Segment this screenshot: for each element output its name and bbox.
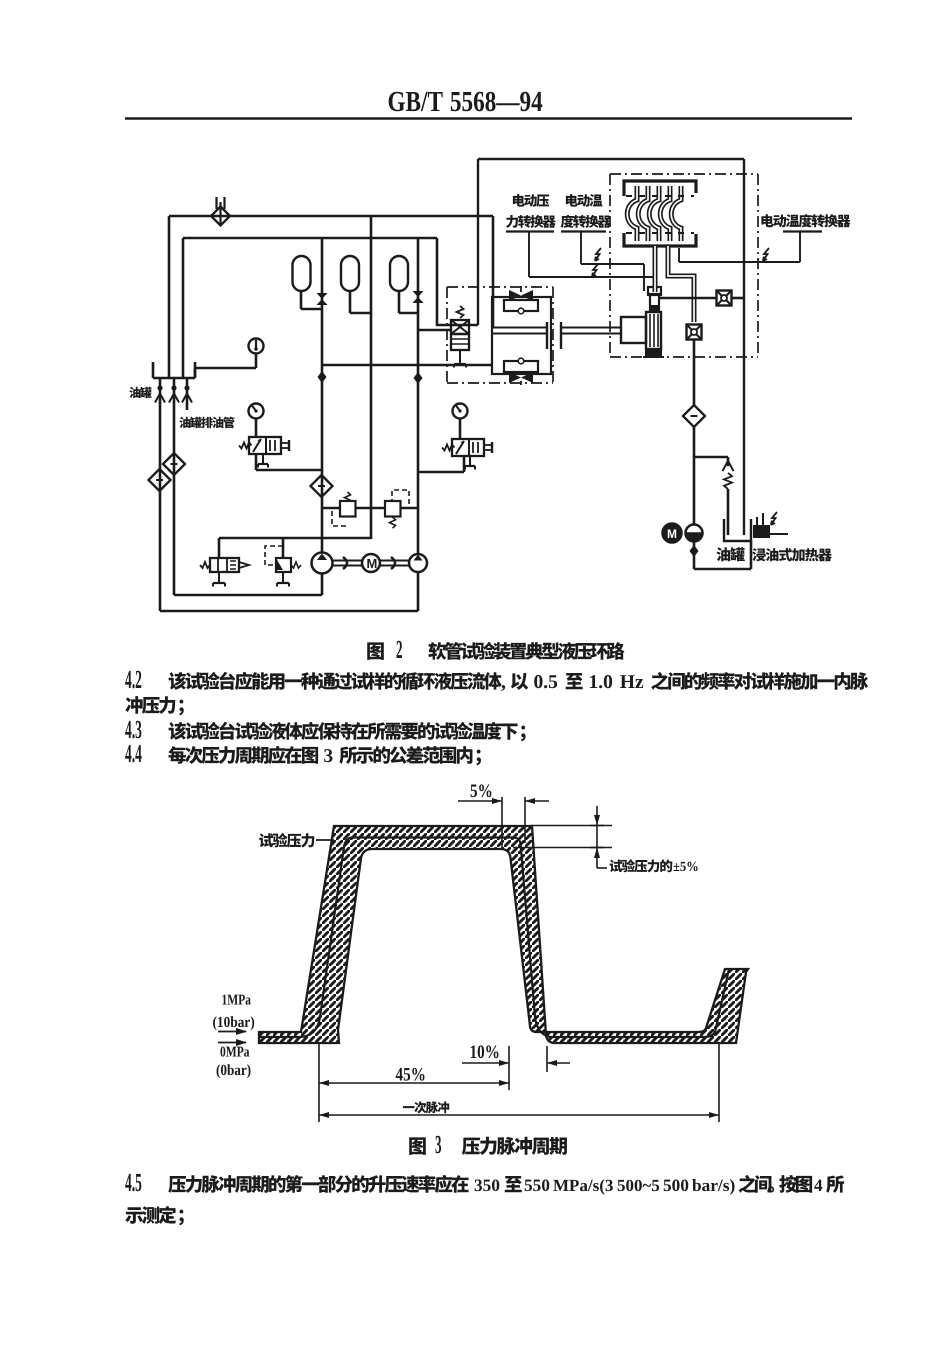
wire top manifold H1: [169, 215, 493, 218]
gauge G1: [249, 339, 264, 354]
document header text GB/T 5568-94: [389, 92, 543, 112]
filter F2 diamond: [163, 453, 185, 475]
relief valve RV1 spring: [457, 306, 464, 318]
lightning 2: [592, 264, 598, 277]
wire N1 to chamber wall: [732, 297, 744, 300]
hose bank dashes: [626, 195, 694, 197]
10% dim arrows: [462, 1062, 509, 1064]
paragraphs 4.2-4.4: [125, 671, 868, 766]
wire V2 left: [182, 238, 185, 377]
5% dim arrows: [458, 800, 502, 802]
piston rod: [493, 327, 547, 329]
tank T1 left: [153, 377, 195, 379]
check valve spring CV1: [723, 461, 734, 471]
shutoff valve on VA: [317, 293, 328, 305]
5% dim ticks: [501, 797, 503, 849]
temperature transducer lead: [580, 231, 582, 264]
valve TL drain: [262, 455, 264, 464]
tube to valve N2: [668, 246, 694, 322]
tank T2: [724, 519, 751, 541]
breather symbol: [215, 197, 217, 209]
cylinder neck: [650, 294, 659, 312]
filter F3 diamond: [311, 475, 333, 497]
wire accumulator A3 drop: [398, 291, 401, 313]
reducer RD1 drain: [282, 572, 284, 583]
entry arrow 1: [218, 1031, 246, 1033]
45% dim ticks: [318, 1044, 320, 1122]
hose specimens: [627, 186, 637, 241]
shutoff valve on VC: [413, 291, 424, 303]
test pressure leader: [316, 839, 334, 841]
figure 2 caption: [367, 641, 624, 660]
wire N2 down: [693, 340, 696, 406]
hose bank manifold bottom: [624, 233, 696, 246]
tolerance extension lines: [531, 825, 612, 827]
wire gauge G1 tank line: [255, 354, 258, 368]
heater H1: [753, 525, 770, 538]
shaft arrow 1: [343, 557, 347, 569]
one pulse dim tick right: [718, 1043, 720, 1122]
motor M2: [663, 524, 682, 543]
hose bank manifold top: [624, 181, 696, 196]
wire CV1 to tank: [727, 489, 730, 535]
check diamond on VA: [318, 371, 327, 383]
header rule: [125, 117, 852, 120]
wire VD down from H2: [436, 238, 439, 326]
wire P3 to tank bottom: [693, 542, 696, 569]
unloader U1 body: [340, 501, 356, 517]
gauge G3: [453, 404, 468, 419]
reducer RD1 dashed box: [265, 546, 283, 565]
tube to cylinder: [653, 246, 658, 292]
relief valve RV2 spring: [200, 562, 210, 568]
svg-text:M: M: [667, 527, 677, 541]
wire drain stub 3: [186, 378, 189, 410]
transducer label underline 1: [506, 230, 554, 232]
unloader U2 spring: [390, 517, 396, 528]
wire valve TR outlet: [459, 419, 462, 439]
wire cylinder to N1: [659, 297, 716, 300]
wire pump P1 suction: [321, 573, 324, 595]
test chamber box: [478, 158, 744, 160]
branch to heater loop: [694, 456, 728, 459]
shaft M-P2: [380, 560, 409, 562]
entry arrow 2: [218, 1042, 246, 1044]
wire valve TL outlet: [255, 419, 258, 437]
wire relief feed from VC: [418, 329, 452, 332]
throttle TH1: [509, 290, 533, 301]
lightning 1: [595, 248, 601, 261]
unloader U1 spring: [345, 492, 351, 503]
check arrow stub2: [169, 394, 179, 403]
wire filter branch 2: [173, 378, 176, 595]
gauge G2: [249, 404, 264, 419]
filter F4 diamond: [683, 405, 705, 427]
pump P3: [686, 525, 703, 542]
figure 3 caption: [409, 1136, 567, 1155]
wire V1 left: [168, 216, 171, 377]
unloader U2 body: [385, 501, 401, 517]
lightning 3: [763, 248, 769, 261]
figure 2 component labels: [129, 194, 850, 561]
motor letters: [367, 559, 376, 568]
right transducer lead: [678, 248, 680, 262]
wire VC line: [417, 238, 420, 556]
valve N1 crossed square: [717, 291, 732, 306]
motor M1: [362, 554, 380, 572]
check diamond below P3: [690, 545, 699, 557]
reducer RD1 body: [276, 558, 291, 572]
throttle box frame: [492, 297, 551, 374]
accumulator A3: [390, 256, 408, 291]
pressure pulse tolerance band hatched: [259, 826, 748, 1043]
wire filter branch 1: [159, 378, 162, 611]
relief valve RV2 drain: [218, 572, 220, 583]
nominal pulse curve: [259, 838, 729, 1038]
cylinder foot: [645, 349, 662, 357]
wire reducer feed: [282, 538, 285, 558]
wire unloader row: [322, 507, 418, 510]
right transducer underline: [783, 230, 822, 232]
accumulator A2: [341, 256, 359, 291]
paragraphs 4.5: [125, 1174, 844, 1226]
throttle TH2: [504, 361, 538, 372]
valve N2 crossed square: [687, 325, 702, 340]
valve TR drain: [469, 455, 471, 466]
filter F1 diamond: [149, 469, 171, 491]
one pulse dim line: [319, 1114, 719, 1116]
pump P1: [312, 553, 333, 574]
unloader U1 dashed box: [332, 511, 349, 526]
unloader U2 dashed box: [392, 490, 409, 504]
wire VE down from H1: [492, 216, 495, 328]
chamber dash-dot enclosure: [610, 173, 758, 175]
valve TL body: [249, 437, 281, 454]
pump P2: [409, 554, 427, 572]
check arrow stub1: [155, 394, 165, 403]
wire VA accumulator line: [321, 238, 324, 554]
wire VB center line: [370, 216, 373, 539]
relief valve RV2 body: [210, 558, 239, 572]
valve TR body: [452, 439, 484, 456]
tolerance dim vertical: [596, 806, 598, 868]
pressure transducer lead: [528, 231, 530, 277]
figure 3 labels: [213, 784, 698, 1113]
relief valve RV1 body: [451, 320, 469, 334]
shaft arrow 2: [391, 557, 395, 569]
45% dim line: [319, 1082, 509, 1084]
wire F4 to pump P3: [693, 426, 696, 524]
accumulator A1: [293, 256, 311, 291]
transducer label underline 2: [561, 230, 606, 232]
10% dim ticks: [508, 1046, 510, 1072]
check arrow stub3: [182, 394, 192, 403]
wire pump P2 suction: [417, 571, 420, 611]
wire pilot line: [322, 364, 492, 367]
shaft P1-M: [332, 560, 362, 562]
cylinder body: [621, 317, 646, 343]
wire VB bottom elbow: [219, 537, 371, 540]
wire H2: [183, 237, 437, 240]
wire accumulator A1 drop: [300, 291, 303, 309]
check diamond on VC: [414, 372, 423, 384]
wire accumulator A2 drop: [349, 291, 352, 313]
throttle dash-dot enclosure: [447, 286, 553, 288]
